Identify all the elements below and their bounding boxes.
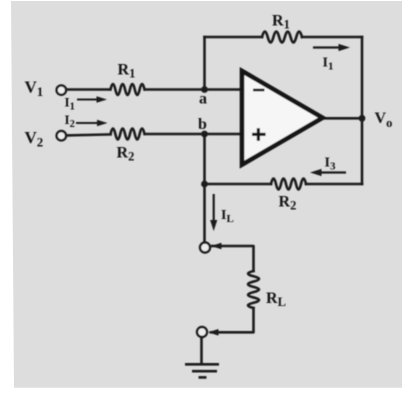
terminal V2 xyxy=(57,131,66,140)
op-amp plus sign xyxy=(252,133,266,136)
resistor R2 (feedback) zigzag xyxy=(271,179,306,190)
svg-text:a: a xyxy=(199,91,207,108)
wire: right bus down from top feedback to output node xyxy=(361,37,364,118)
wire: top feedback right segment xyxy=(302,36,362,39)
wire: vertical segment from top feedback corner down to node a xyxy=(203,37,206,90)
wire: right bus from output node down to bottom feedback xyxy=(361,118,364,184)
output node Vo junction dot xyxy=(359,115,366,122)
resistor R1 (feedback) zigzag xyxy=(262,32,302,43)
ground symbol xyxy=(185,364,219,377)
wire: load terminal to resistor RL top xyxy=(212,246,254,271)
arrowhead into load top terminal xyxy=(211,243,228,250)
wire: vertical segment from node b down through bottom node to load terminal xyxy=(203,134,206,243)
terminal V1 xyxy=(57,85,66,94)
current arrow I3 xyxy=(310,169,346,176)
op-amp minus sign xyxy=(253,89,265,92)
wire: bottom feedback left segment to bottom node xyxy=(205,183,272,186)
svg-text:b: b xyxy=(198,116,207,133)
current arrow I1 (feedback) xyxy=(313,44,350,51)
arrowhead into load bottom terminal xyxy=(208,329,226,336)
resistor R1 (input) zigzag xyxy=(111,84,145,95)
wire: resistor R1 to op-amp inverting input xyxy=(145,88,242,91)
current arrow I2 (input) xyxy=(76,120,108,126)
bottom node junction dot xyxy=(201,181,208,188)
wire: V2 terminal to resistor R2 input xyxy=(67,134,111,135)
wire: top feedback left segment xyxy=(205,36,263,39)
node a junction dot xyxy=(201,86,208,93)
terminal load bottom xyxy=(197,327,207,337)
wire: lower terminal to ground xyxy=(200,338,203,362)
wire: bottom feedback right segment xyxy=(306,183,362,186)
op-amp U1 xyxy=(242,71,323,165)
wire: resistor R2 to op-amp non-inverting input xyxy=(145,133,242,136)
wire: resistor RL bottom to lower terminal xyxy=(211,308,254,332)
resistor RL zigzag xyxy=(248,271,259,308)
current arrow IL xyxy=(210,194,217,231)
wire: V1 terminal to resistor R1 input xyxy=(67,88,111,91)
resistor R2 (input) zigzag xyxy=(111,129,145,140)
current arrow I1 (input) xyxy=(77,96,107,102)
node b junction dot xyxy=(201,131,208,138)
terminal load top xyxy=(200,243,210,253)
wire: op-amp output to node Vo xyxy=(322,117,362,120)
